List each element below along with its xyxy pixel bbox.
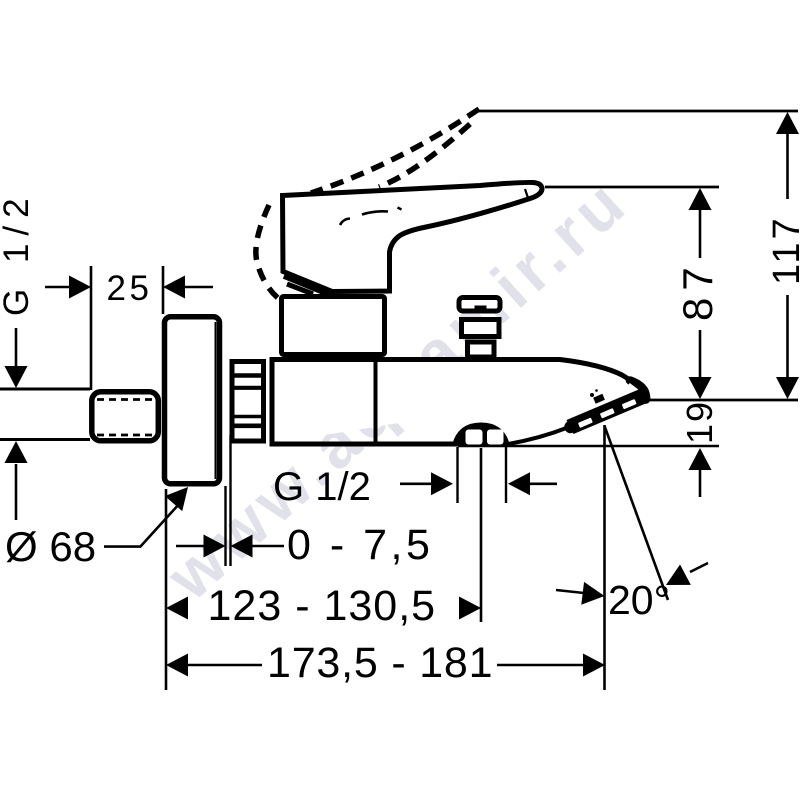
shower outlet mid section <box>462 320 500 337</box>
87 tail upper <box>699 209 702 258</box>
svg-text:87: 87 <box>674 260 721 321</box>
20deg arrow at diagonal <box>661 565 691 596</box>
lever handle <box>283 182 543 291</box>
S-union coupling <box>92 392 159 441</box>
svg-text:20°: 20° <box>608 577 670 623</box>
extension line dome left <box>456 447 458 503</box>
handle bottom wedge <box>285 275 332 294</box>
spout aerator band 20deg <box>567 389 648 434</box>
117 tail upper <box>786 133 789 199</box>
spout tip blob <box>630 381 646 400</box>
173.5-181 leader right <box>497 664 584 667</box>
G 1/2 left tail lower <box>15 464 18 520</box>
wire: wall supply pipe bottom line <box>0 438 90 441</box>
cartridge cap block <box>282 297 385 355</box>
dome window 1 <box>466 430 483 445</box>
handle wedge lower line <box>287 284 313 294</box>
25 arrow right <box>69 276 91 299</box>
reference line lever tip <box>545 186 719 189</box>
dome window 2 <box>487 430 504 445</box>
20deg arrow right <box>581 582 606 608</box>
117 tail lower <box>786 295 789 378</box>
svg-text:G 1/2: G 1/2 <box>273 465 371 509</box>
G 1/2 bottom arrow left <box>508 472 530 495</box>
25 arrow left <box>163 276 185 299</box>
wire: wall supply pipe top line <box>0 388 90 391</box>
aerator slot 1 <box>578 417 593 427</box>
escutcheon flange <box>165 317 220 484</box>
svg-text:117: 117 <box>766 215 800 285</box>
lever tip separation mark <box>525 189 529 200</box>
aerator slot 2 <box>600 408 615 418</box>
spout detail dot <box>590 393 594 397</box>
extension line 25 right <box>162 266 165 314</box>
173.5-181 leader left <box>187 664 262 667</box>
shower outlet lower section <box>468 342 495 357</box>
svg-text:173,5 - 181: 173,5 - 181 <box>267 639 493 687</box>
173.5-181 arrow right <box>583 654 605 677</box>
svg-text:Ø 68: Ø 68 <box>5 523 96 570</box>
bottom hose outlet dome <box>452 423 510 447</box>
reference line spout outlet <box>643 399 798 402</box>
extension line dome center <box>480 448 483 622</box>
117 arrow down <box>776 377 799 399</box>
flange face inner line <box>215 322 217 479</box>
extension line left (wall face) <box>165 489 168 690</box>
nut rib 1 <box>234 373 262 378</box>
extension line spout 20deg diagonal <box>605 426 669 600</box>
G 1/2 left arrow up <box>5 441 28 463</box>
coupling thread dashes bottom <box>97 434 153 437</box>
dashed raised handle back edge <box>256 205 278 298</box>
dimension 25: leader left <box>45 286 70 289</box>
dia 68 leader diagonal <box>140 503 180 547</box>
reference line body bottom extension <box>458 445 719 448</box>
G 1/2 left arrow down <box>5 366 28 388</box>
svg-text:19: 19 <box>679 400 720 444</box>
spout underside curve <box>508 427 569 444</box>
extension line dome right <box>505 447 507 503</box>
G 1/2 left tail upper <box>15 328 18 366</box>
svg-text:G 1/2: G 1/2 <box>0 190 36 316</box>
union nut <box>232 362 264 442</box>
25 leader right <box>184 286 213 289</box>
dimension 0-7.5 leader left <box>176 545 204 548</box>
handle detail arc 2 <box>362 211 388 214</box>
shower outlet cap <box>459 298 500 312</box>
nut rib 3 <box>234 415 262 419</box>
87 arrow down <box>689 377 712 399</box>
extension line 0-7.5 left <box>224 486 226 566</box>
svg-text:0 - 7,5: 0 - 7,5 <box>287 521 433 569</box>
0-7.5 leader right <box>251 545 284 548</box>
dimension 87 arrow up <box>689 188 712 210</box>
body divider line <box>374 358 378 443</box>
19 tail <box>699 470 702 497</box>
G 1/2 bottom leader left <box>400 482 432 485</box>
spout detail dot small <box>595 389 598 392</box>
dashed raised handle top edge <box>311 109 479 193</box>
G 1/2 bottom leader right <box>529 482 557 485</box>
svg-text:123 - 130,5: 123 - 130,5 <box>208 582 437 630</box>
19 arrow up <box>689 448 712 470</box>
handle detail tick <box>398 208 402 210</box>
20deg tail left <box>556 590 584 593</box>
dimension 173.5-181 arrow left <box>166 654 188 677</box>
dia 68 arrowhead <box>165 479 197 511</box>
dia 68 leader horizontal <box>104 545 141 548</box>
G 1/2 bottom arrow right <box>431 472 453 495</box>
aerator band end cap <box>564 421 576 433</box>
0-7.5 arrow right <box>204 535 226 558</box>
extension line spout tip vertical <box>603 425 606 690</box>
handle detail arc 1 <box>340 219 350 226</box>
0-7.5 arrow left <box>231 535 253 558</box>
20deg tail right <box>690 563 708 572</box>
extension line 25 left <box>90 266 93 390</box>
svg-text:25: 25 <box>107 269 153 308</box>
aerator slot 3 <box>622 399 637 409</box>
dimension 123-130.5 arrow left <box>166 597 188 620</box>
aerator top lug <box>593 394 605 404</box>
coupling thread dashes top <box>97 398 153 401</box>
extension line 0-7.5 right <box>229 435 231 566</box>
spout tip notch <box>629 384 637 390</box>
reference line top (max height) <box>474 110 798 113</box>
123-130.5 arrow right <box>459 597 481 620</box>
nut rib 4 <box>234 423 262 428</box>
nut rib 2 <box>234 386 262 390</box>
dimension 117 arrow up <box>776 112 799 134</box>
body bottom edge <box>270 442 459 447</box>
mixer body outline <box>272 360 635 444</box>
87 tail lower <box>699 330 702 378</box>
dashed raised handle underside <box>379 124 470 187</box>
shower outlet cap tab <box>475 306 487 313</box>
